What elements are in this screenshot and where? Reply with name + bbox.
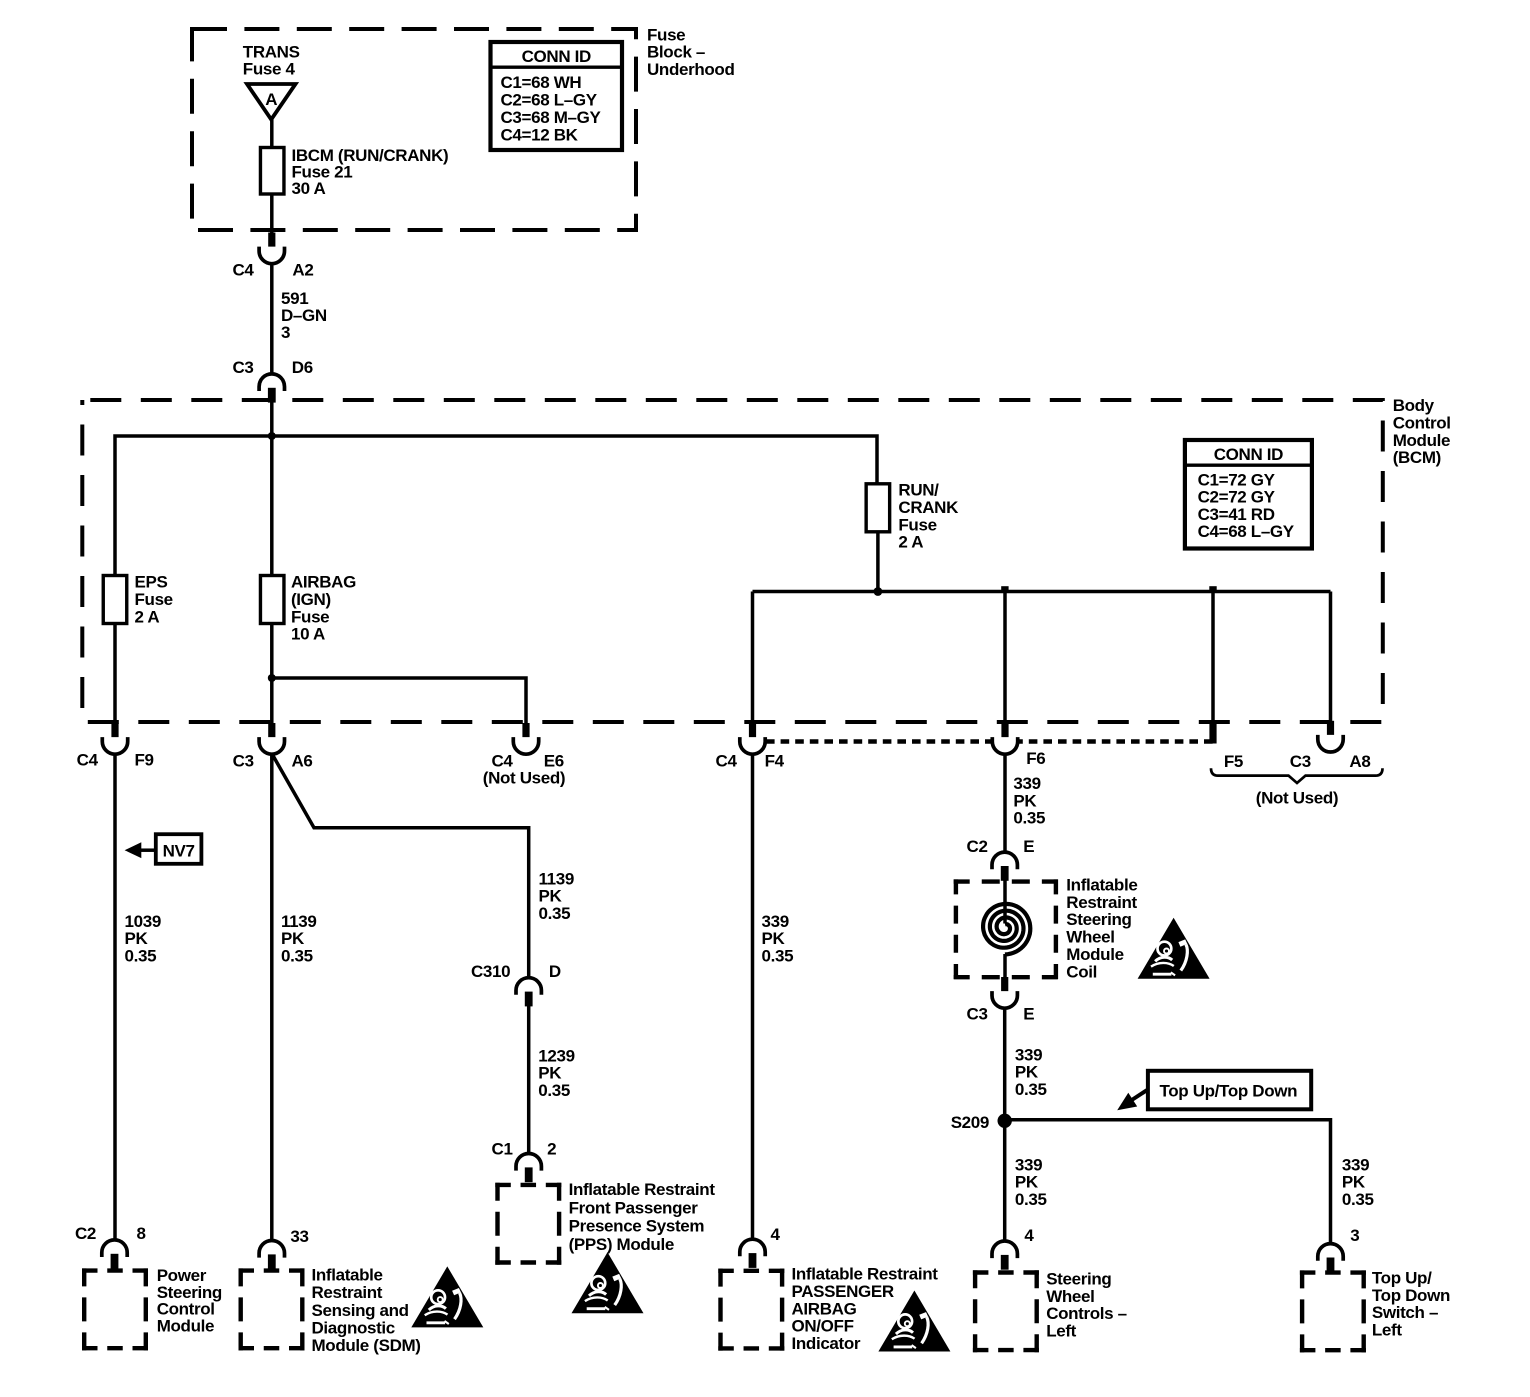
svg-text:Wheel: Wheel <box>1066 928 1114 947</box>
wire out of coil <box>1003 954 1007 980</box>
junction dot B <box>268 674 276 682</box>
svg-text:0.35: 0.35 <box>538 1081 570 1100</box>
svg-text:PK: PK <box>1015 1063 1039 1082</box>
top up arrow <box>1131 1090 1148 1101</box>
svg-text:C2: C2 <box>967 837 988 856</box>
svg-text:C2=72 GY: C2=72 GY <box>1198 488 1276 507</box>
branch wire to E6 <box>272 678 526 740</box>
svg-text:PASSENGER: PASSENGER <box>792 1282 894 1301</box>
fuse AIRBAG IGN <box>260 576 284 624</box>
svg-text:Wheel: Wheel <box>1046 1287 1094 1306</box>
svg-text:1239: 1239 <box>538 1046 574 1065</box>
svg-text:Presence System: Presence System <box>569 1217 705 1236</box>
SWC box <box>973 1270 1039 1352</box>
svg-text:F6: F6 <box>1026 749 1045 768</box>
svg-text:(IGN): (IGN) <box>291 590 331 609</box>
svg-text:339: 339 <box>1013 774 1040 793</box>
svg-text:CONN ID: CONN ID <box>1214 445 1283 464</box>
svg-text:Module: Module <box>1066 945 1123 964</box>
S209 junction <box>998 1114 1012 1128</box>
svg-text:NV7: NV7 <box>163 841 195 860</box>
svg-text:Front Passenger: Front Passenger <box>569 1198 699 1217</box>
NV7 arrow <box>141 848 157 852</box>
svg-text:339: 339 <box>1342 1155 1369 1174</box>
svg-text:D6: D6 <box>292 358 313 377</box>
top up label box <box>1148 1071 1311 1110</box>
svg-text:Inflatable Restraint: Inflatable Restraint <box>569 1180 716 1199</box>
svg-text:PK: PK <box>1013 791 1037 810</box>
svg-text:3: 3 <box>1350 1226 1359 1245</box>
svg-text:C1: C1 <box>492 1140 513 1159</box>
svg-text:339: 339 <box>1015 1045 1042 1064</box>
indicator box <box>718 1269 784 1351</box>
svg-text:0.35: 0.35 <box>1015 1190 1047 1209</box>
svg-text:F5: F5 <box>1224 752 1243 771</box>
drop wire A8 <box>1329 592 1333 738</box>
junction dot C <box>874 587 883 596</box>
svg-text:Fuse: Fuse <box>135 590 173 609</box>
connector C3-A6 <box>259 723 284 754</box>
fuse F21 IBCM <box>260 148 284 195</box>
wire C310 down <box>527 1005 531 1155</box>
svg-text:PK: PK <box>125 929 149 948</box>
svg-text:(PPS) Module: (PPS) Module <box>569 1235 674 1254</box>
svg-text:C1=68 WH: C1=68 WH <box>501 73 582 92</box>
svg-text:Fuse 4: Fuse 4 <box>243 60 296 79</box>
PSCM box <box>82 1268 148 1350</box>
svg-text:Left: Left <box>1046 1322 1076 1341</box>
svg-text:0.35: 0.35 <box>1013 809 1045 828</box>
svg-text:30 A: 30 A <box>292 179 326 198</box>
airbag triangle indicator <box>878 1291 950 1352</box>
svg-text:EPS: EPS <box>135 573 168 592</box>
svg-text:C4=68 L–GY: C4=68 L–GY <box>1198 522 1295 541</box>
connector C1-2 <box>516 1154 541 1183</box>
svg-text:0.35: 0.35 <box>1342 1190 1374 1209</box>
svg-text:Top Up/: Top Up/ <box>1372 1268 1432 1287</box>
connector 4 indicator <box>740 1239 765 1268</box>
wire AIRBAG down <box>270 624 274 741</box>
junction dot A <box>268 432 276 440</box>
fuse EPS <box>103 576 127 624</box>
svg-text:CRANK: CRANK <box>898 498 959 517</box>
svg-text:3: 3 <box>281 323 290 342</box>
BCM box <box>82 400 1383 722</box>
fuse RUN CRANK <box>866 484 890 532</box>
NV7 box <box>156 834 202 864</box>
svg-text:Restraint: Restraint <box>1066 893 1137 912</box>
svg-text:(Not Used): (Not Used) <box>1256 789 1338 808</box>
svg-text:0.35: 0.35 <box>281 947 313 966</box>
svg-text:Fuse: Fuse <box>291 607 329 626</box>
svg-text:C1=72 GY: C1=72 GY <box>1198 471 1276 490</box>
svg-text:Switch –: Switch – <box>1372 1303 1438 1322</box>
svg-text:(BCM): (BCM) <box>1393 448 1441 467</box>
connector C3-D6 <box>259 374 284 403</box>
svg-text:CONN ID: CONN ID <box>522 47 591 66</box>
svg-text:C4=12 BK: C4=12 BK <box>501 125 579 144</box>
svg-text:Body: Body <box>1393 396 1435 415</box>
diagonal branch A6 <box>272 754 529 979</box>
connector C4-F4 <box>740 723 765 754</box>
svg-text:Sensing and: Sensing and <box>312 1301 409 1320</box>
wire 591 <box>270 264 274 375</box>
drop wire F5 <box>1211 592 1215 723</box>
svg-text:S209: S209 <box>951 1113 989 1132</box>
svg-text:Module (SDM): Module (SDM) <box>312 1336 421 1355</box>
svg-text:(Not Used): (Not Used) <box>483 769 565 788</box>
svg-text:PK: PK <box>1015 1173 1039 1192</box>
svg-text:AIRBAG: AIRBAG <box>291 573 356 592</box>
lower bus wire <box>753 590 1331 594</box>
wire EPS to F9 <box>113 624 117 741</box>
connector C2-E <box>992 852 1017 881</box>
svg-text:Inflatable: Inflatable <box>1066 875 1137 894</box>
svg-text:0.35: 0.35 <box>762 947 794 966</box>
wire S209 down <box>1003 1120 1007 1242</box>
PPS box <box>495 1183 561 1265</box>
connector 4 SWC <box>992 1241 1017 1270</box>
svg-text:Module: Module <box>1393 431 1450 450</box>
svg-text:A6: A6 <box>292 752 313 771</box>
svg-text:0.35: 0.35 <box>125 947 157 966</box>
connector F6 <box>992 723 1017 754</box>
svg-text:C3: C3 <box>232 358 253 377</box>
svg-text:Left: Left <box>1372 1321 1402 1340</box>
wire F9 down <box>113 754 117 1240</box>
S209 branch wire <box>1005 1120 1331 1244</box>
svg-text:E: E <box>1023 1005 1034 1024</box>
svg-text:PK: PK <box>1342 1173 1366 1192</box>
svg-text:0.35: 0.35 <box>539 904 571 923</box>
dotted connector line <box>766 739 1213 744</box>
svg-text:F9: F9 <box>135 751 154 770</box>
stub F5 <box>1209 722 1216 744</box>
SDM box <box>239 1268 305 1350</box>
svg-text:4: 4 <box>1024 1226 1034 1245</box>
svg-text:PK: PK <box>762 929 786 948</box>
svg-text:AIRBAG: AIRBAG <box>792 1299 857 1318</box>
svg-text:2 A: 2 A <box>898 533 923 552</box>
svg-text:8: 8 <box>137 1224 146 1243</box>
svg-text:Steering: Steering <box>1066 910 1131 929</box>
connector C3-A8 <box>1318 721 1343 752</box>
svg-text:0.35: 0.35 <box>1015 1080 1047 1099</box>
svg-text:Fuse: Fuse <box>898 515 936 534</box>
svg-text:339: 339 <box>1015 1155 1042 1174</box>
svg-text:C3: C3 <box>967 1005 988 1024</box>
tee nub F6 <box>1001 586 1008 591</box>
svg-text:PK: PK <box>539 887 563 906</box>
svg-text:Top Up/Top Down: Top Up/Top Down <box>1160 1082 1298 1101</box>
svg-text:C3: C3 <box>1290 752 1311 771</box>
airbag triangle PPS <box>572 1252 644 1313</box>
svg-text:C3=41 RD: C3=41 RD <box>1198 505 1275 524</box>
svg-text:2 A: 2 A <box>135 607 160 626</box>
svg-text:Block –: Block – <box>647 43 705 62</box>
svg-text:Indicator: Indicator <box>792 1334 861 1353</box>
svg-text:C4: C4 <box>77 751 99 770</box>
svg-text:Controls –: Controls – <box>1046 1304 1127 1323</box>
connector C2-8 <box>102 1240 127 1269</box>
svg-text:Steering: Steering <box>1046 1269 1111 1288</box>
wire runcrank to lower bus <box>876 532 880 592</box>
connector C310-D <box>516 978 541 1007</box>
wire C3E to S209 <box>1003 1008 1007 1120</box>
svg-text:C3: C3 <box>233 752 254 771</box>
svg-text:Underhood: Underhood <box>647 60 735 79</box>
wire F4 down <box>751 754 755 1240</box>
wire A6 down <box>270 754 274 1242</box>
svg-text:E: E <box>1023 837 1034 856</box>
wire BCM entry down <box>270 401 274 576</box>
drop wire F4 <box>751 592 755 741</box>
power feed triangle A <box>247 84 296 120</box>
upper bus wire <box>115 436 877 576</box>
fuse block underhood box <box>192 29 636 230</box>
connector C4-F9 <box>102 723 127 754</box>
conn id table BCM <box>1185 440 1312 549</box>
svg-text:1039: 1039 <box>125 912 161 931</box>
svg-text:10 A: 10 A <box>291 625 325 644</box>
coil box <box>954 879 1058 979</box>
svg-text:339: 339 <box>762 912 789 931</box>
svg-text:C310: C310 <box>471 962 510 981</box>
svg-text:A8: A8 <box>1349 752 1370 771</box>
svg-text:A: A <box>265 90 277 109</box>
airbag triangle SDM <box>411 1266 483 1327</box>
svg-text:1139: 1139 <box>539 869 574 888</box>
svg-text:C4: C4 <box>716 752 738 771</box>
connector C4-A2 <box>259 233 284 264</box>
svg-text:RUN/: RUN/ <box>898 481 939 500</box>
svg-text:D: D <box>549 962 561 981</box>
svg-text:Fuse: Fuse <box>647 25 685 44</box>
svg-text:Coil: Coil <box>1066 962 1097 981</box>
svg-text:Inflatable: Inflatable <box>312 1265 383 1284</box>
wire triangle to fuse <box>270 120 274 148</box>
svg-text:Top Down: Top Down <box>1372 1286 1450 1305</box>
svg-text:C2: C2 <box>75 1224 96 1243</box>
brace not used <box>1211 768 1383 783</box>
airbag triangle coil <box>1138 918 1210 979</box>
wire into coil <box>1003 880 1007 923</box>
tee nub F5 <box>1209 586 1216 591</box>
svg-text:ON/OFF: ON/OFF <box>792 1317 854 1336</box>
connector C3-E <box>992 977 1017 1008</box>
svg-text:C3=68 M–GY: C3=68 M–GY <box>501 108 602 127</box>
svg-text:4: 4 <box>771 1225 781 1244</box>
svg-text:PK: PK <box>538 1064 562 1083</box>
svg-text:C2=68 L–GY: C2=68 L–GY <box>501 90 598 109</box>
svg-text:Control: Control <box>1393 413 1451 432</box>
conn id table underhood <box>491 42 623 150</box>
topup box <box>1300 1270 1366 1352</box>
svg-text:2: 2 <box>547 1140 556 1159</box>
svg-text:Restraint: Restraint <box>312 1283 383 1302</box>
svg-text:Diagnostic: Diagnostic <box>312 1319 395 1338</box>
connector C4-E6 <box>513 723 538 754</box>
wire F6 down <box>1003 754 1007 852</box>
svg-text:PK: PK <box>281 929 305 948</box>
wire fuse to C4 connector <box>270 194 274 235</box>
svg-text:Module: Module <box>157 1316 214 1335</box>
svg-text:C4: C4 <box>232 261 254 280</box>
svg-text:A2: A2 <box>292 261 313 280</box>
svg-text:F4: F4 <box>765 752 785 771</box>
svg-text:Inflatable Restraint: Inflatable Restraint <box>792 1265 939 1284</box>
svg-text:33: 33 <box>290 1227 308 1246</box>
connector 3 topup <box>1318 1244 1343 1273</box>
connector 33 <box>259 1241 284 1270</box>
coil spiral <box>983 904 1030 955</box>
drop wire F6 <box>1003 592 1007 741</box>
svg-text:1139: 1139 <box>281 912 316 931</box>
